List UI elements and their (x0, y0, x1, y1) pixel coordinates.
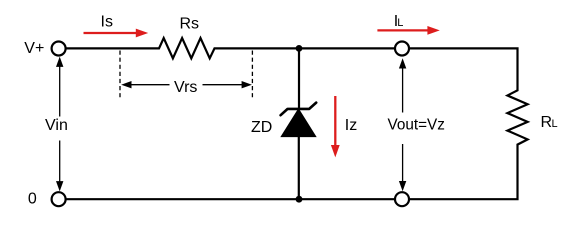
svg-text:0: 0 (28, 190, 37, 207)
svg-text:Iz: Iz (345, 117, 357, 134)
svg-text:Vrs: Vrs (174, 79, 197, 96)
svg-text:Is: Is (101, 14, 113, 31)
svg-text:L: L (552, 118, 558, 130)
svg-text:L: L (397, 17, 403, 29)
svg-text:Vout=Vz: Vout=Vz (388, 116, 445, 133)
svg-text:Rs: Rs (180, 16, 200, 33)
svg-text:R: R (541, 114, 553, 131)
svg-text:ZD: ZD (251, 119, 272, 136)
svg-text:Vin: Vin (45, 117, 68, 134)
svg-text:V+: V+ (24, 40, 44, 57)
